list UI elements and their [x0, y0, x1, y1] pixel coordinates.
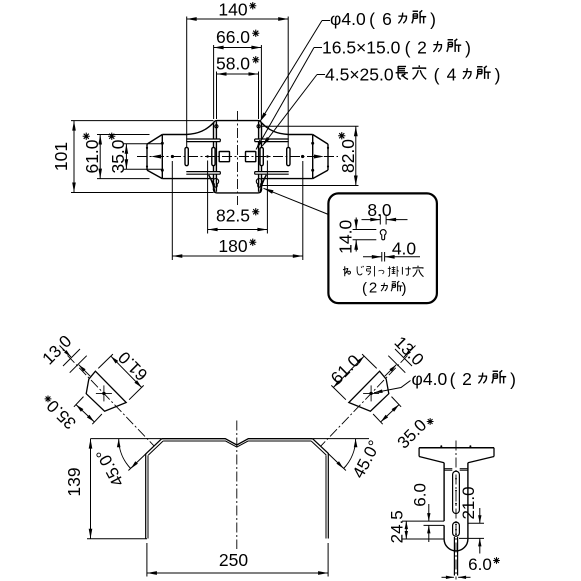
top view: S-curve bottom-left — [209, 175, 215, 193]
svg-text:82.0: 82.0 — [338, 139, 358, 173]
side view: stem walls — [444, 463, 468, 539]
svg-text:4.5×25.0: 4.5×25.0 — [325, 65, 394, 85]
svg-text:2: 2 — [417, 38, 427, 58]
dimension 101 left — [51, 121, 214, 193]
left tab outline — [86, 371, 126, 411]
svg-text:): ) — [510, 370, 516, 390]
svg-text:(: ( — [450, 370, 456, 390]
callout phi4.0 (2 places) — [374, 369, 516, 393]
top view: left wing fold hole marks — [146, 142, 164, 172]
top view: column top flange edge — [214, 121, 262, 125]
front view: left 45 deg arc — [117, 439, 138, 469]
side view dimension 21.0 — [459, 486, 484, 553]
svg-text:): ) — [465, 38, 471, 58]
top view: axis arrows — [151, 155, 324, 159]
detail dimension 14.0 — [336, 218, 377, 254]
top view: screw hook keyhole left — [213, 178, 219, 187]
top view: gusset S-curve top-right — [262, 123, 289, 135]
top view: S-curve bottom-right — [260, 175, 266, 193]
detail box leader to keyhole — [264, 188, 329, 214]
angle label 45.0 left — [92, 446, 128, 490]
side view dimension 6.0 upper — [402, 483, 444, 542]
dimension 250 — [147, 543, 328, 577]
detail: keyhole glyph — [380, 230, 386, 240]
top view: 4.5x25 slot 4 — [287, 147, 290, 165]
top view: horizontal center line — [137, 156, 338, 158]
svg-text:(: ( — [434, 65, 440, 85]
svg-text:101: 101 — [51, 142, 71, 171]
svg-text:4: 4 — [447, 65, 457, 85]
top view: screw hook keyhole right — [256, 178, 262, 187]
top view: column side edges mid — [214, 141, 262, 171]
svg-text:2: 2 — [462, 369, 472, 389]
svg-text:(: ( — [369, 10, 375, 30]
side view dimension 24.5 — [388, 510, 444, 543]
right tab outline — [349, 371, 389, 411]
side view: hook — [444, 525, 468, 551]
svg-text:180: 180 — [218, 236, 247, 256]
top view: column top verticals (66 outer / 58 inner) — [214, 121, 262, 139]
svg-text:139: 139 — [64, 467, 84, 496]
side view: bend tick lines — [444, 469, 468, 471]
svg-text:24.5: 24.5 — [388, 510, 407, 543]
svg-text:φ4.0: φ4.0 — [330, 9, 366, 29]
side view: upper slot — [453, 471, 460, 513]
svg-text:8.0: 8.0 — [367, 200, 392, 220]
left tab dimension 13.0 — [39, 332, 91, 377]
top view: 4.5x25 slot 2 — [212, 147, 215, 165]
side view: bottom tab — [454, 537, 457, 576]
front view: left chamfer — [146, 439, 163, 455]
front view: right 45 deg arc — [336, 439, 357, 469]
svg-text:16.5×15.0: 16.5×15.0 — [322, 38, 401, 58]
callout 4.5x25.0 slotted hole (4 places) — [262, 65, 500, 147]
svg-text:): ) — [402, 280, 407, 297]
svg-text:61.0: 61.0 — [82, 139, 102, 173]
svg-text:14.0: 14.0 — [336, 220, 356, 254]
top view: 16.5x15 square hole right — [246, 152, 256, 162]
svg-text:): ) — [430, 10, 436, 30]
dimension 180 bottom — [172, 161, 302, 260]
left tab: bend axis center line — [68, 356, 155, 447]
side view: flange top edge — [419, 447, 494, 449]
top view: 4.5x25 slot 3 — [260, 147, 263, 165]
top view: left wing outline — [147, 135, 213, 179]
detail box frame — [328, 193, 437, 303]
svg-text:φ4.0: φ4.0 — [412, 369, 448, 389]
left tab: phi4 hole dot and cross — [96, 385, 112, 401]
svg-text:(: ( — [405, 38, 411, 58]
svg-text:): ) — [495, 65, 501, 85]
right tab: bend axis center line — [321, 356, 408, 447]
left tab dimension 61.0 — [98, 348, 151, 400]
side view: slot center dots — [455, 478, 457, 535]
front view: right 45 deg reference lines — [313, 439, 369, 471]
dimension 35.0 left (top view) — [108, 133, 164, 174]
right tab dimension 35.0 — [373, 397, 435, 453]
top view: phi4 hole top-left — [215, 125, 218, 128]
front view: top edge outer with V-notch — [162, 439, 313, 445]
detail dimension 8.0 — [362, 200, 408, 225]
detail text: (2 places) — [362, 280, 407, 298]
side view: lower slot — [453, 522, 460, 536]
top view: bend lines lower-right — [255, 172, 289, 175]
top view: vertical center line — [237, 111, 239, 205]
front view: vertical center line — [236, 421, 238, 550]
svg-text:6.0: 6.0 — [411, 483, 430, 507]
front view: left side wall — [146, 454, 148, 539]
callout phi4.0 (6 places) — [260, 9, 436, 122]
top view: 16.5x15 square hole left — [219, 152, 229, 162]
top view: column bottom verticals — [214, 174, 262, 192]
svg-text:2: 2 — [369, 280, 377, 297]
svg-text:66.0: 66.0 — [216, 27, 250, 47]
svg-text:4.0: 4.0 — [392, 239, 417, 259]
front view: right chamfer — [311, 439, 328, 455]
dimension 139 — [64, 439, 147, 539]
dimension 61.0 left — [82, 133, 150, 179]
svg-text:6.0: 6.0 — [468, 555, 492, 574]
left tab dimension 35.0 — [43, 394, 102, 433]
angle label 45.0 right — [349, 437, 385, 481]
right tab dimension 61.0 — [327, 351, 377, 400]
svg-text:82.5: 82.5 — [216, 206, 250, 226]
dimension 140 top — [187, 0, 289, 147]
side view: flange ends and underside — [419, 448, 494, 463]
right tab dimension 13.0 — [385, 333, 428, 377]
svg-text:140: 140 — [218, 0, 247, 20]
top view: bend lines lower-left — [186, 172, 220, 175]
svg-text:58.0: 58.0 — [216, 54, 250, 74]
svg-text:6: 6 — [382, 9, 392, 29]
front view: left 45 deg reference lines — [91, 439, 162, 471]
front view: top edge inner — [163, 441, 311, 447]
dimension 82.5 bottom — [208, 161, 268, 234]
top view: bend lines upper-left — [186, 139, 220, 142]
dimension 66.0 — [214, 27, 262, 119]
side view: flange hole dots — [440, 445, 471, 447]
front view: right side wall — [326, 454, 328, 539]
top view: phi4 hole top-right — [257, 125, 260, 128]
svg-text:250: 250 — [219, 550, 248, 570]
dimension 58.0 — [216, 54, 259, 120]
svg-text:35.0: 35.0 — [108, 139, 128, 173]
top view: right wing outline — [262, 135, 328, 179]
top view: gusset S-curve top-left — [187, 123, 214, 135]
svg-text:(: ( — [362, 280, 367, 297]
svg-text:21.0: 21.0 — [459, 486, 478, 519]
top view: 4.5x25 slot 1 — [185, 147, 188, 165]
detail dimension 4.0 — [363, 239, 420, 262]
top view: column bottom flange edge — [214, 189, 262, 193]
callout 16.5x15.0 (2 places) — [256, 38, 471, 150]
side view: vertical center line — [455, 441, 457, 580]
side view dimension 6.0 bottom — [442, 555, 500, 579]
top view: bend lines upper-right — [255, 139, 289, 142]
top view: hole center dots on axis — [171, 155, 304, 158]
top view: right wing fold hole marks — [311, 142, 329, 172]
detail text: neji hikkake ana (screw hook hole) — [343, 266, 423, 277]
dimension 82.0 right — [262, 126, 359, 185]
right tab: phi4 hole dot and cross — [363, 385, 379, 401]
